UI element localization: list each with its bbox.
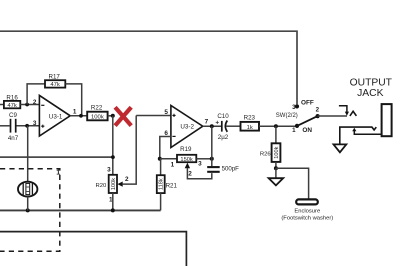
wire U3-2 pin6 down to inverting node (160, 137, 171, 159)
jack sleeve contact (340, 127, 377, 144)
svg-text:R17: R17 (49, 74, 61, 81)
svg-text:5: 5 (164, 109, 168, 116)
svg-text:U3-2: U3-2 (180, 124, 194, 131)
svg-text:R16: R16 (6, 95, 18, 102)
svg-text:7: 7 (205, 119, 209, 126)
jack inner contact with arrow (352, 128, 356, 132)
switch SW(2/2) (276, 99, 320, 134)
red X mark (115, 107, 131, 125)
svg-text:R20: R20 (95, 183, 107, 189)
svg-text:2: 2 (33, 99, 37, 106)
svg-text:3: 3 (33, 120, 37, 127)
ground rail bottom (0, 209, 161, 211)
wire C9 to pin 3 (17, 125, 40, 127)
jack body (382, 104, 392, 136)
resistor R23 (241, 115, 260, 131)
svg-text:500pF: 500pF (222, 166, 240, 173)
capacitor C10 (215, 113, 229, 141)
svg-text:R22: R22 (91, 105, 103, 112)
node R26 tap (274, 124, 278, 128)
svg-text:U3-1: U3-1 (49, 113, 63, 120)
wire pin3 node down to input connector (27, 126, 29, 182)
svg-text:2: 2 (125, 176, 129, 183)
potentiometer R20 (95, 166, 129, 203)
output jack symbol (334, 104, 392, 152)
op-amp U3-2 (164, 106, 208, 148)
wire C9 input from left edge (0, 125, 10, 127)
svg-text:OUTPUT: OUTPUT (350, 77, 393, 88)
input jack connector (circle symbol) (18, 182, 37, 197)
svg-text:100k: 100k (274, 146, 280, 158)
svg-text:C9: C9 (9, 112, 17, 119)
wire R16 to pin 2 (20, 104, 39, 106)
wire switch pin2 to jack (318, 115, 347, 117)
wire connector to rail (27, 197, 29, 211)
svg-text:2: 2 (316, 107, 320, 114)
svg-text:3: 3 (198, 161, 202, 168)
wire node to R19 pin1 (160, 158, 177, 160)
wire R22 right (108, 115, 113, 117)
wire U3-2 output to C10 (203, 125, 222, 127)
svg-text:Enclosure: Enclosure (294, 208, 320, 214)
resistor R17 (45, 74, 65, 89)
svg-text:SW(2/2): SW(2/2) (276, 113, 298, 119)
svg-text:R21: R21 (166, 182, 178, 189)
wire top rail to switch pin 3 (0, 31, 297, 104)
svg-text:+: + (215, 119, 219, 126)
node inverting input (158, 157, 162, 161)
ground under R26 (269, 168, 284, 185)
wire to enclosure washer (276, 168, 309, 199)
potentiometer R19 (171, 146, 203, 177)
svg-text:R19: R19 (180, 146, 192, 153)
enclosure washer (296, 199, 318, 204)
enclosure bottom box (0, 232, 186, 266)
node ground/enclosure (274, 166, 278, 170)
jack tip spring contact (350, 111, 357, 116)
wire U3-2 pin5 (136, 115, 171, 117)
wire R19 pin3 to output node (196, 158, 212, 160)
svg-text:2: 2 (188, 171, 192, 178)
jack tip pin with arrow (339, 106, 347, 113)
resistor R26 (260, 126, 281, 168)
wiper arrow of R20 (117, 182, 122, 187)
svg-text:1k: 1k (247, 125, 253, 131)
node after R22 (111, 114, 115, 118)
wire U3-1 output (70, 115, 87, 117)
wire R23 to switch pin 1 (259, 125, 297, 127)
wire R20 wiper up to U3-2 pin5 (122, 116, 136, 185)
svg-text:2µ2: 2µ2 (218, 134, 229, 141)
svg-text:1: 1 (292, 127, 296, 134)
resistor R21 (157, 159, 178, 211)
svg-text:47k: 47k (50, 82, 60, 88)
wire node down to 500pF top (211, 159, 213, 167)
node rail input jack (26, 208, 30, 212)
capacitor C9 (8, 112, 19, 142)
svg-text:JACK: JACK (357, 88, 383, 99)
node output junction (79, 114, 83, 118)
svg-text:ON: ON (302, 127, 312, 134)
wire node down to R20 pin 3 (112, 116, 114, 175)
svg-text:4n7: 4n7 (8, 135, 19, 142)
svg-text:3: 3 (107, 166, 111, 173)
wire feedback left leg (27, 84, 45, 105)
svg-text:100k: 100k (91, 115, 104, 121)
svg-text:R26: R26 (260, 152, 272, 158)
svg-text:1: 1 (73, 109, 77, 116)
svg-text:150k: 150k (180, 157, 192, 163)
svg-text:R23: R23 (244, 115, 256, 122)
svg-text:100k: 100k (111, 178, 117, 190)
svg-text:(Footswitch washer): (Footswitch washer) (281, 216, 333, 222)
node pin2 junction (25, 103, 29, 107)
node tee y157 (111, 155, 115, 159)
svg-text:OFF: OFF (301, 99, 314, 106)
wire R20 bottom to rail (112, 193, 114, 210)
wire R19 wiper to 500pF bottom (187, 168, 211, 179)
op-amp U3-1 (33, 95, 77, 136)
node output U3-2 (210, 124, 214, 128)
wire R16 input from left edge (0, 104, 4, 106)
svg-text:3: 3 (292, 104, 296, 111)
resistor R22 (87, 105, 107, 121)
ground under jack (334, 144, 347, 152)
node R19 right (210, 157, 214, 161)
svg-text:1: 1 (171, 161, 175, 168)
wire feedback right leg (65, 84, 81, 116)
wiper arrow of R19 (185, 163, 190, 169)
svg-text:118k: 118k (159, 178, 165, 190)
svg-text:47k: 47k (7, 103, 17, 109)
node pin3 junction (25, 124, 29, 128)
resistor R16 (4, 95, 20, 109)
wire C10 to R23 (226, 125, 241, 127)
svg-text:1: 1 (56, 169, 60, 176)
wire tap rail going left at y157 (0, 156, 113, 158)
dashed enclosure box (input) (0, 169, 60, 251)
node rail R20 (111, 208, 115, 212)
wire output node down to R19 right (211, 126, 213, 159)
capacitor 500pF (207, 166, 239, 173)
